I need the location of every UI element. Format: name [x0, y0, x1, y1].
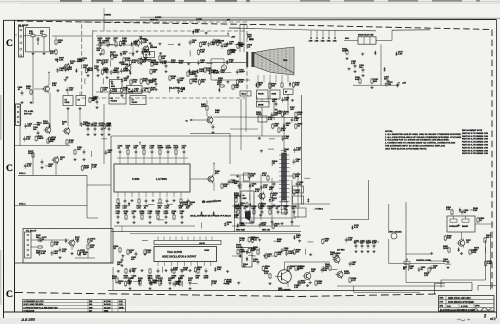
wire out DL500	[376, 40, 392, 42]
wire video vertical	[271, 178, 273, 224]
diode	[188, 69, 190, 74]
wire	[15, 103, 21, 105]
capacitor C203	[83, 149, 86, 154]
capacitor	[80, 122, 83, 127]
wire latch pin 4	[181, 237, 183, 241]
transistor Q303	[333, 255, 341, 264]
wire	[158, 219, 164, 221]
capacitor C210	[87, 126, 90, 131]
capacitor	[281, 97, 284, 102]
wire	[132, 45, 134, 52]
resistor	[115, 41, 117, 47]
diode D501	[289, 82, 291, 87]
wire	[206, 100, 208, 105]
wire U400 pin 7	[159, 192, 161, 197]
diode D302	[246, 257, 248, 262]
ground	[31, 52, 34, 55]
capacitor	[106, 69, 109, 74]
wire	[189, 50, 191, 56]
wire U400 pin 2	[124, 192, 126, 197]
left edge scan shadow	[0, 95, 2, 140]
capacitor C11	[37, 37, 40, 42]
capacitor	[149, 214, 152, 219]
wire	[239, 237, 241, 243]
ground	[226, 80, 229, 83]
wire top bus left	[229, 28, 310, 30]
resistor	[285, 209, 287, 215]
diode	[148, 51, 150, 56]
capacitor	[129, 280, 132, 285]
IC U400 vertical/video processor	[114, 164, 190, 192]
dashed inner line module	[93, 30, 247, 32]
capacitor	[99, 41, 102, 46]
wire	[189, 201, 191, 207]
wire top entry	[103, 17, 105, 32]
capacitor	[23, 136, 26, 141]
capacitor	[270, 112, 273, 117]
wire pin stub	[143, 155, 145, 164]
wire	[91, 163, 93, 169]
ground	[306, 284, 309, 287]
capacitor	[271, 219, 274, 224]
diode	[226, 60, 228, 65]
resistor R204	[74, 149, 76, 155]
capacitor	[275, 101, 278, 106]
focus block box	[257, 90, 269, 99]
yoke connector box	[244, 173, 250, 181]
ground	[237, 281, 240, 284]
wire rail	[232, 225, 300, 227]
ground	[178, 43, 181, 46]
ground	[148, 287, 151, 290]
wire into board	[87, 184, 111, 186]
diode	[255, 83, 257, 88]
wire	[110, 60, 112, 66]
wire from left	[430, 260, 445, 262]
resistor R101	[55, 39, 57, 45]
wire flyback pin 2	[263, 75, 265, 82]
scan smudge line	[140, 18, 500, 19]
capacitor	[117, 214, 120, 219]
wire	[217, 71, 223, 73]
resistor	[125, 268, 127, 274]
wire	[55, 163, 57, 175]
resistor R524	[448, 247, 450, 253]
wire to vertical	[240, 116, 302, 119]
wire	[388, 239, 390, 264]
wire Q102 out	[214, 116, 241, 118]
wire	[101, 138, 107, 140]
capacitor	[195, 73, 198, 78]
wire U300 pin 4	[177, 262, 179, 267]
wire collector up	[284, 262, 286, 270]
transistor Q301 horizontal output	[275, 266, 291, 287]
ground	[298, 239, 301, 242]
+12V supply arrow	[87, 238, 89, 242]
wire to Q401	[190, 178, 208, 180]
resistor R107	[159, 55, 161, 61]
capacitor C515	[291, 117, 294, 122]
capacitor	[133, 214, 136, 219]
capacitor	[293, 209, 296, 214]
resistor R507	[371, 78, 373, 84]
wire latch pin 0	[157, 237, 159, 241]
diode	[224, 222, 226, 227]
pin 4 CN2	[17, 121, 19, 123]
wire to lamp	[211, 58, 224, 60]
handwritten sheet note 2 of 2	[473, 308, 492, 312]
resistor R505	[346, 49, 348, 55]
capacitor C201	[37, 130, 40, 135]
potentiometer R521 BRIGHT	[462, 216, 469, 222]
ground	[148, 79, 151, 82]
resistor	[444, 235, 446, 241]
capacitor	[133, 268, 136, 273]
wire	[269, 255, 276, 257]
wire	[33, 123, 39, 125]
resistor	[253, 209, 255, 215]
resistor R112	[213, 39, 215, 45]
wire	[142, 240, 148, 242]
dashed boundary bottom	[15, 293, 436, 297]
wire	[115, 282, 121, 284]
wire module bottom edge	[15, 262, 113, 264]
wire U400 pin 1	[117, 192, 119, 197]
wire video horizontal	[236, 217, 296, 219]
capacitor	[145, 198, 148, 203]
wire bottom rail	[75, 257, 95, 259]
resistor	[272, 223, 274, 229]
ground	[211, 131, 214, 134]
wire	[168, 61, 174, 63]
wire	[67, 92, 69, 96]
ground	[120, 94, 123, 97]
wire sub-board outline	[190, 134, 230, 165]
capacitor C521	[447, 259, 450, 264]
IC U1 box	[144, 52, 155, 58]
wire	[157, 202, 163, 204]
wire sync out	[150, 61, 247, 63]
pin 3 CN3	[27, 244, 29, 246]
resistor R526	[484, 237, 486, 243]
ground	[457, 224, 460, 227]
resistor	[270, 192, 272, 198]
resistor	[77, 250, 79, 256]
diode	[459, 208, 461, 213]
pin 2 CN3	[27, 239, 29, 241]
wire	[200, 222, 202, 228]
wire U400 pin 8	[166, 192, 168, 197]
wire	[84, 78, 86, 84]
ground	[58, 256, 61, 259]
resistor R402	[246, 202, 248, 208]
resistor R404	[235, 197, 237, 203]
IC U2 box	[110, 80, 123, 89]
resistor	[281, 111, 283, 117]
capacitor C506	[387, 78, 390, 83]
wire regulator drop	[234, 192, 236, 232]
wire long video line	[18, 174, 87, 176]
wire	[15, 34, 18, 36]
ground	[158, 42, 161, 45]
ground	[180, 221, 183, 224]
capacitor	[149, 280, 152, 285]
control pots box	[447, 216, 475, 232]
wire	[273, 240, 279, 242]
wire U300 pin 7	[197, 262, 199, 267]
wire	[268, 98, 270, 104]
resistor R103	[102, 49, 104, 55]
potentiometer R517	[404, 258, 410, 264]
diode	[197, 69, 199, 74]
wire	[168, 43, 174, 45]
wire nested corner 1	[435, 284, 446, 295]
ground	[164, 70, 167, 73]
wire U300 pin 3	[170, 262, 172, 267]
wire feed into module	[52, 35, 92, 37]
diode D420	[269, 198, 271, 203]
ground	[82, 158, 85, 161]
wire	[79, 92, 81, 96]
diode	[200, 211, 202, 216]
wire	[91, 151, 93, 157]
ground	[20, 101, 23, 104]
ground	[116, 221, 119, 224]
+12V supply arrow	[213, 162, 215, 166]
wire stub 3	[328, 30, 330, 36]
wire latch pin 3	[175, 237, 177, 241]
wire left column drop	[32, 53, 34, 104]
wire module solid left vertical	[92, 30, 94, 100]
wire pin stub	[159, 155, 161, 164]
capacitor	[251, 219, 254, 224]
ground	[260, 202, 263, 205]
wire	[133, 280, 139, 282]
IC U3 box	[127, 86, 143, 94]
ground	[86, 133, 89, 136]
resistor	[99, 41, 101, 47]
wire	[32, 150, 34, 175]
diode	[213, 211, 215, 216]
capacitor	[361, 243, 364, 248]
flyback primary label cluster	[249, 38, 254, 40]
diode	[239, 253, 241, 258]
wire right board edge	[406, 202, 430, 254]
diode	[395, 51, 397, 56]
capacitor	[117, 69, 120, 74]
capacitor	[181, 214, 184, 219]
ground	[42, 52, 45, 55]
wire	[43, 239, 69, 241]
resistor	[287, 265, 289, 271]
wire	[32, 36, 34, 51]
ground	[260, 222, 263, 225]
wire U300 pin 9	[210, 262, 212, 267]
diode	[160, 280, 162, 285]
wire	[268, 148, 274, 150]
resistor R302	[127, 249, 129, 255]
capacitor	[189, 280, 192, 285]
ground	[29, 101, 32, 104]
pin 3 CN1	[20, 42, 22, 44]
wire latch pin 6	[193, 237, 195, 241]
resistor R515	[278, 127, 280, 133]
resistor	[130, 79, 132, 85]
wire flyback pin 1	[257, 75, 259, 82]
wire HV lead	[287, 95, 289, 116]
resistor	[35, 135, 37, 141]
ground	[430, 252, 433, 255]
title block	[439, 296, 495, 312]
wire bar feed	[283, 110, 285, 153]
diode	[218, 88, 220, 93]
wire	[96, 44, 133, 46]
wire U300 pin 2	[164, 262, 166, 267]
ground	[347, 67, 350, 70]
capacitor	[135, 149, 138, 154]
wire	[109, 51, 111, 57]
resistor	[180, 198, 182, 204]
ground	[345, 57, 348, 60]
ground	[96, 74, 99, 77]
wire	[140, 58, 142, 64]
wire	[37, 37, 39, 43]
wire	[121, 226, 123, 232]
wire	[117, 157, 188, 159]
ground	[271, 205, 274, 208]
capacitor	[197, 60, 200, 65]
ground	[168, 287, 171, 290]
ground	[235, 196, 238, 199]
resistor	[200, 41, 202, 47]
connector bar ladder	[279, 154, 290, 156]
ground	[132, 221, 135, 224]
diode	[65, 238, 67, 243]
capacitor	[385, 82, 388, 87]
diode D301	[246, 250, 248, 255]
capacitor	[101, 60, 104, 65]
resistor	[148, 87, 150, 93]
video module box 2	[293, 196, 304, 204]
resistor	[88, 238, 90, 244]
wire	[249, 194, 251, 200]
wire	[252, 255, 256, 257]
wire top bus right	[392, 29, 430, 31]
ground	[446, 266, 449, 269]
ground	[280, 222, 283, 225]
capacitor C120	[21, 90, 24, 95]
ladder lower extension	[281, 201, 289, 203]
transistor Q420	[258, 192, 266, 201]
diode	[138, 280, 140, 285]
wire to right section	[302, 203, 331, 205]
resistor	[129, 59, 131, 65]
wire	[213, 166, 215, 176]
resistor R523	[477, 217, 479, 223]
pin	[310, 37, 312, 39]
capacitor C119	[212, 124, 215, 129]
resistor	[224, 279, 226, 285]
resistor	[159, 149, 161, 155]
resistor	[173, 268, 175, 274]
ground	[70, 252, 73, 255]
transistor Q102	[206, 116, 214, 125]
IC U4 box	[63, 96, 73, 106]
border frame left outer	[3, 20, 5, 318]
pin 1 CN3	[27, 234, 29, 236]
ground	[177, 81, 180, 84]
resistor	[272, 123, 274, 129]
resistor R301	[119, 247, 121, 253]
dashed boundary right	[491, 30, 493, 291]
wire top stub above frame	[103, 8, 105, 17]
capacitor C101	[79, 57, 82, 62]
capacitor	[64, 67, 67, 72]
ground	[164, 221, 167, 224]
resistor	[190, 78, 192, 84]
ground	[117, 203, 120, 206]
resistor R222	[37, 246, 43, 248]
wire cross	[285, 261, 331, 263]
wire	[213, 182, 215, 191]
transistor Q302	[303, 271, 311, 281]
capacitor	[24, 123, 27, 128]
ground	[172, 199, 175, 202]
wire video horizontal	[232, 205, 300, 207]
wire partial box bottom	[330, 219, 369, 221]
capacitor	[140, 40, 143, 45]
capacitor	[355, 243, 358, 248]
wire +12V rail in module	[96, 35, 230, 37]
resistor R518	[428, 267, 430, 273]
diode	[56, 58, 58, 63]
wire	[175, 281, 177, 287]
diode	[249, 183, 251, 188]
capacitor	[183, 149, 186, 154]
wire	[79, 108, 81, 126]
pin 4 CN3	[27, 249, 29, 251]
resistor	[295, 111, 297, 117]
scan top edge dark dashes	[60, 0, 250, 2]
capacitor	[245, 209, 248, 214]
resistor	[293, 249, 295, 255]
ground	[116, 76, 119, 79]
capacitor	[170, 267, 173, 272]
ground	[205, 32, 208, 35]
ground	[258, 239, 261, 242]
wire	[408, 265, 410, 271]
wire	[148, 61, 154, 63]
capacitor C211	[94, 126, 97, 131]
resistor	[107, 41, 109, 47]
capacitor	[56, 68, 59, 73]
resistor R501	[257, 82, 259, 88]
scan scribbles bottom right	[457, 319, 465, 321]
ground	[263, 254, 266, 257]
wire	[261, 99, 263, 102]
wire stub 2	[322, 30, 324, 36]
diode	[151, 281, 153, 286]
ground	[117, 270, 120, 273]
wire	[230, 128, 258, 130]
pin	[322, 37, 324, 39]
resistor	[141, 214, 143, 220]
connector CN3	[25, 232, 32, 258]
resistor R420	[267, 175, 269, 181]
border frame top line	[4, 19, 497, 22]
wire U400 pin 6	[152, 192, 154, 197]
wire	[281, 150, 287, 152]
